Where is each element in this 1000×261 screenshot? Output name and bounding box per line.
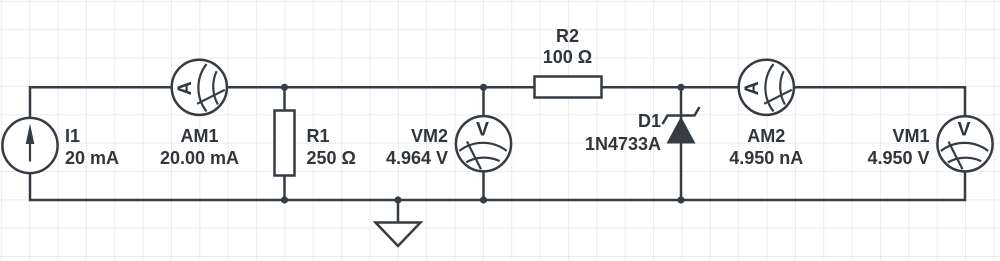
voltmeter VM1 [937, 116, 992, 171]
junction node VM2 top [480, 84, 487, 91]
wire VM2 branch [482, 87, 485, 200]
svg-text:D1: D1 [638, 111, 661, 131]
label I1 [65, 126, 119, 168]
wire D1 branch [680, 87, 683, 200]
label AM1 [160, 126, 239, 168]
junction node R1 bottom [281, 196, 288, 203]
svg-text:250 Ω: 250 Ω [307, 148, 356, 168]
label R1 [307, 126, 356, 168]
junction node R1 top [281, 84, 288, 91]
svg-text:R1: R1 [307, 126, 330, 146]
svg-text:I1: I1 [65, 126, 80, 146]
ground [376, 223, 421, 247]
svg-text:VM2: VM2 [411, 126, 448, 146]
label VM2 [386, 126, 448, 168]
zener diode D1 [663, 107, 700, 144]
svg-text:20 mA: 20 mA [65, 148, 119, 168]
svg-text:V: V [957, 119, 970, 141]
label R2 [543, 26, 592, 67]
svg-text:100 Ω: 100 Ω [543, 47, 592, 67]
wire ground stub [397, 200, 400, 222]
svg-text:20.00 mA: 20.00 mA [160, 148, 239, 168]
junction node D1 bottom [677, 196, 684, 203]
svg-text:AM1: AM1 [180, 126, 218, 146]
svg-text:4.964 V: 4.964 V [386, 148, 448, 168]
resistor R1 [275, 111, 295, 176]
ammeter AM2 [739, 60, 794, 115]
svg-text:A: A [174, 81, 196, 95]
voltmeter VM2 [456, 116, 511, 171]
svg-text:4.950 V: 4.950 V [867, 148, 929, 168]
resistor R2 [535, 77, 602, 98]
label AM2 [729, 126, 803, 168]
wire R1 branch [283, 87, 286, 200]
svg-text:AM2: AM2 [747, 126, 785, 146]
svg-text:V: V [476, 118, 489, 140]
svg-text:A: A [741, 81, 763, 95]
label VM1 [867, 126, 929, 168]
junction node D1 top [677, 84, 684, 91]
wire outer loop (top rail, right side, bottom rail, I1 branch) [30, 87, 965, 200]
label D1 [585, 111, 661, 154]
svg-text:VM1: VM1 [892, 126, 929, 146]
svg-text:1N4733A: 1N4733A [585, 134, 661, 154]
current source I1 [2, 118, 57, 173]
junction node VM2 bottom [480, 196, 487, 203]
svg-text:4.950 nA: 4.950 nA [729, 148, 803, 168]
junction node ground [394, 196, 401, 203]
svg-text:R2: R2 [556, 26, 579, 46]
ammeter AM1 [172, 60, 227, 115]
